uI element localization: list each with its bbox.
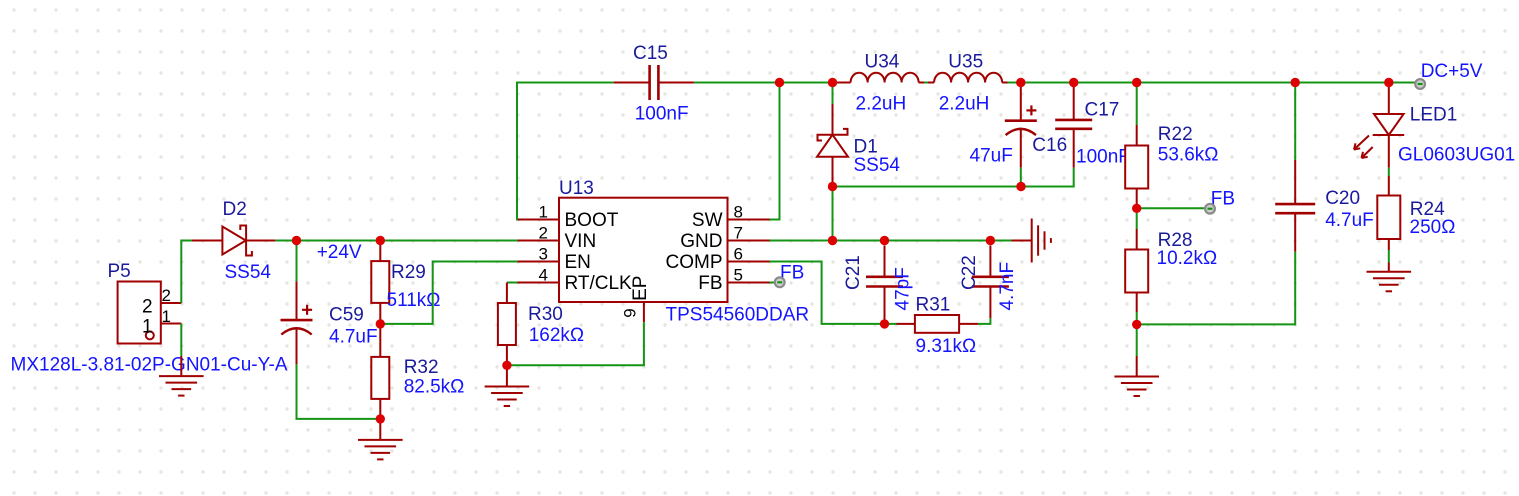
net flag FB at pin 5 [775, 277, 785, 287]
wire EP pin to R30 bottom [507, 322, 644, 365]
LED LED1 [1354, 86, 1457, 168]
svg-text:SS54: SS54 [225, 262, 272, 283]
resistor R31 [897, 294, 979, 332]
svg-text:2.2uH: 2.2uH [939, 94, 990, 115]
svg-text:GND: GND [680, 231, 722, 252]
junction at R32 bottom [376, 414, 385, 423]
wire C59 bottom to R32 bottom node [297, 364, 381, 419]
svg-text:82.5kΩ: 82.5kΩ [404, 377, 465, 398]
net label FB (divider) [1211, 189, 1235, 210]
wire R31 right to C22 bottom [978, 318, 990, 324]
wire SW pin to top bus [770, 83, 780, 220]
node +24V junction at D2 cathode [292, 236, 301, 245]
svg-text:1: 1 [142, 317, 153, 338]
pin 4 RT/CLK [518, 266, 632, 295]
svg-text:162kΩ: 162kΩ [529, 325, 584, 346]
svg-text:C20: C20 [1325, 188, 1360, 209]
svg-text:2: 2 [142, 296, 153, 317]
svg-text:LED1: LED1 [1410, 104, 1458, 125]
svg-text:3: 3 [539, 245, 548, 264]
svg-text:9.31kΩ: 9.31kΩ [916, 336, 977, 357]
svg-text:2: 2 [539, 224, 548, 243]
junction GND bus at C21 [880, 236, 889, 245]
pin 1 BOOT [518, 203, 619, 232]
capacitor C17 [1055, 85, 1119, 168]
svg-text:2.2uH: 2.2uH [856, 94, 907, 115]
svg-text:100nF: 100nF [1076, 147, 1130, 168]
wire between U34 and U35 [924, 82, 928, 84]
svg-text:4.7uF: 4.7uF [1325, 210, 1374, 231]
diode D2 [192, 199, 275, 257]
wire P5 pin2 to D2 anode [181, 241, 192, 304]
wire GND pin to ground bus [770, 240, 833, 242]
svg-text:R32: R32 [404, 357, 439, 378]
ground below P5 [159, 356, 204, 396]
connector P5 [108, 261, 182, 343]
svg-text:C59: C59 [329, 305, 364, 326]
resistor R28 [1125, 208, 1192, 324]
wire top bus C16 to C17 to R22 [1021, 82, 1389, 84]
wire R28 bottom to C20 bottom [1137, 252, 1296, 325]
svg-text:47uF: 47uF [970, 146, 1013, 167]
value label 250Ω (R24) [1410, 217, 1456, 238]
junction top bus at D1 [828, 78, 837, 87]
capacitor C15 [614, 43, 694, 100]
value label 100nF (C17) [1076, 147, 1130, 168]
value label TPS54560DDAR [666, 304, 810, 325]
junction at R30 bottom / EP wire [502, 361, 511, 370]
svg-text:U34: U34 [865, 51, 900, 72]
svg-text:DC+5V: DC+5V [1421, 61, 1483, 82]
wire top bus to DC+5V flag [1389, 82, 1417, 84]
value label 47uF (C16) [970, 146, 1013, 167]
resistor R32 [371, 324, 438, 419]
svg-text:VIN: VIN [565, 231, 597, 252]
junction GND bus at C22 [986, 236, 995, 245]
svg-text:4.7uF: 4.7uF [329, 327, 378, 348]
value label 10.2kΩ (R28) [1157, 248, 1218, 269]
value label GL0603UG01 [1398, 145, 1515, 166]
svg-text:10.2kΩ: 10.2kΩ [1157, 248, 1218, 269]
svg-text:C16: C16 [1032, 135, 1067, 156]
svg-text:D2: D2 [223, 199, 247, 220]
net flag FB at divider [1205, 204, 1215, 214]
wire P5 pin1 to ground [180, 324, 182, 357]
svg-text:GL0603UG01: GL0603UG01 [1398, 145, 1515, 166]
value label 2.2uH (U34) [856, 94, 907, 115]
net label FB (pin 5) [780, 262, 804, 283]
junction R22 bottom / FB node [1132, 204, 1141, 213]
ground below R32 [358, 419, 403, 460]
wire FB stub right [1137, 207, 1206, 209]
value label 9.31kΩ (R31) [916, 336, 977, 357]
capacitor C59 (polarized) [281, 241, 364, 365]
diode D1 [817, 83, 878, 183]
svg-text:100nF: 100nF [635, 104, 689, 125]
resistor R24 [1377, 176, 1445, 250]
value label 100nF (C15) [635, 104, 689, 125]
svg-text:R22: R22 [1158, 124, 1193, 145]
wire U35 to C16 node [1008, 82, 1021, 84]
svg-text:47pF: 47pF [893, 267, 914, 310]
svg-text:U35: U35 [948, 51, 983, 72]
wire C15 right to SW junction and D1 [694, 82, 833, 84]
svg-text:SW: SW [692, 210, 723, 231]
junction top bus at R22 [1132, 78, 1141, 87]
svg-text:7: 7 [734, 224, 743, 243]
junction SW / top bus [775, 78, 784, 87]
value label SS54 (D2) [225, 262, 272, 283]
junction top bus at C20 [1291, 78, 1300, 87]
wire R24 bottom to ground [1388, 250, 1390, 263]
svg-text:EP: EP [630, 276, 651, 301]
junction top bus at C16 [1016, 78, 1025, 87]
wire COMP pin to C21 bottom [770, 262, 898, 324]
svg-text:R30: R30 [528, 304, 563, 325]
pin 9 EP [620, 276, 651, 323]
svg-text:8: 8 [734, 203, 743, 222]
junction at R29 top [376, 236, 385, 245]
net flag DC+5V [1415, 79, 1425, 89]
wire LED1 cathode to R24 [1388, 168, 1390, 176]
svg-text:1: 1 [162, 307, 171, 326]
junction at R29 bottom / EN wire [376, 319, 385, 328]
svg-text:250Ω: 250Ω [1410, 217, 1456, 238]
pin 7 GND [680, 224, 769, 253]
svg-text:C22: C22 [959, 255, 980, 290]
svg-text:5: 5 [734, 266, 743, 285]
value label MX128L-3.81-02P-GN01-Cu-Y-A [11, 355, 288, 376]
svg-text:53.6kΩ: 53.6kΩ [1158, 145, 1219, 166]
svg-text:R29: R29 [391, 262, 426, 283]
value label 4.7uF (C59) [329, 327, 378, 348]
svg-text:BOOT: BOOT [565, 210, 619, 231]
svg-text:+24V: +24V [317, 242, 362, 263]
junction R28 bottom [1132, 320, 1141, 329]
svg-text:6: 6 [734, 245, 743, 264]
capacitor C21 [843, 246, 903, 321]
value label 2.2uH (U35) [939, 94, 990, 115]
wire D1 anode bus to C17 bottom [833, 168, 1074, 187]
inductor U35 [928, 51, 1008, 82]
wire GND bus to C21 C22 and ground [833, 240, 1012, 242]
junction D1 anode / output gnd-side bus [828, 182, 837, 191]
wire +24V node to VIN pin [297, 240, 518, 242]
value label SS54 (D1) [854, 155, 901, 176]
svg-text:C21: C21 [843, 255, 864, 290]
pin 8 SW [692, 203, 770, 232]
resistor R22 [1125, 83, 1192, 209]
net label +24V [317, 242, 362, 263]
pin 2 VIN [518, 224, 597, 253]
ground right-pointing on GND bus [1012, 219, 1051, 263]
wire R29 bottom to EN pin [380, 262, 517, 324]
ground below R28 [1114, 356, 1159, 396]
pin 6 COMP [666, 245, 770, 274]
value label 82.5kΩ (R32) [404, 377, 465, 398]
svg-text:C17: C17 [1085, 99, 1120, 120]
svg-text:RT/CLK: RT/CLK [565, 273, 633, 294]
net label DC+5V [1421, 61, 1483, 82]
svg-text:R31: R31 [916, 294, 951, 315]
svg-text:MX128L-3.81-02P-GN01-Cu-Y-A: MX128L-3.81-02P-GN01-Cu-Y-A [11, 355, 288, 376]
junction C21 bottom / COMP wire / R31 [880, 319, 889, 328]
svg-text:EN: EN [565, 252, 591, 273]
svg-text:2: 2 [162, 286, 171, 305]
ground below R30 [485, 365, 530, 406]
wire D1 anode node down to GND wire [832, 187, 834, 241]
pin 3 EN [518, 245, 591, 274]
svg-text:U13: U13 [559, 178, 594, 199]
value label 162kΩ (R30) [529, 325, 584, 346]
svg-text:COMP: COMP [666, 252, 723, 273]
wire R28 bottom to ground [1136, 324, 1138, 356]
svg-text:9: 9 [620, 308, 639, 317]
svg-text:C15: C15 [633, 43, 668, 64]
pin 5 FB [698, 266, 769, 295]
capacitor C22 [959, 246, 1009, 319]
svg-text:1: 1 [539, 203, 548, 222]
svg-text:SS54: SS54 [854, 155, 901, 176]
wire FB pin stub [770, 282, 775, 284]
inductor U34 [833, 51, 925, 82]
capacitor C20 [1275, 83, 1360, 252]
value label 511kΩ (R29) [387, 290, 441, 311]
junction GND bus at x832 [828, 236, 837, 245]
capacitor C16 (polarized) [1005, 86, 1067, 187]
junction top bus at C17 [1069, 78, 1078, 87]
wire D2 cathode to +24V node [275, 240, 296, 242]
svg-text:P5: P5 [108, 261, 131, 282]
ground below R24 [1367, 263, 1412, 292]
value label 47pF (C21) [893, 267, 914, 310]
value label 4.7nF (C22) [997, 262, 1018, 311]
resistor R30 [498, 283, 563, 366]
wire BOOT to C15 left [517, 83, 614, 220]
svg-text:FB: FB [698, 273, 722, 294]
value label 4.7uF (C20) [1325, 210, 1374, 231]
svg-text:TPS54560DDAR: TPS54560DDAR [666, 304, 810, 325]
junction C16 bottom [1016, 182, 1025, 191]
svg-text:4.7nF: 4.7nF [997, 262, 1018, 311]
op-amp U13 TPS54560DDAR body [559, 178, 728, 302]
svg-text:4: 4 [539, 266, 548, 285]
resistor R29 [371, 241, 426, 324]
value label 53.6kΩ (R22) [1158, 145, 1219, 166]
junction top bus at LED1 [1384, 78, 1393, 87]
